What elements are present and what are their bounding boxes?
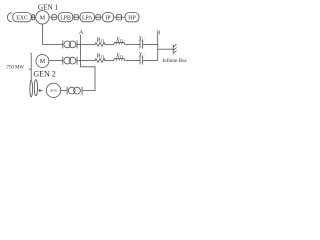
wire GEN1 step-up drop xyxy=(42,24,62,44)
wind turbine blade 2 xyxy=(34,80,37,96)
turbine mass HP xyxy=(125,13,139,22)
turbine mass EXC xyxy=(13,13,31,22)
svg-text:DFIG: DFIG xyxy=(50,89,58,93)
wire M to T2 xyxy=(49,60,63,62)
capacitor XC line1 xyxy=(140,40,143,48)
svg-text:Infinite Bus: Infinite Bus xyxy=(162,57,186,64)
svg-text:EXC: EXC xyxy=(16,16,28,22)
wire T3 riser to node A xyxy=(81,61,96,91)
wire line2 R to L xyxy=(106,60,115,62)
svg-text:IP: IP xyxy=(105,16,110,22)
svg-text:A: A xyxy=(79,30,84,36)
transformer T1 xyxy=(63,40,77,48)
turbine mass IP xyxy=(103,13,114,22)
svg-text:LPA: LPA xyxy=(82,16,93,22)
resistor RTL line2 xyxy=(95,59,106,63)
shaft coupling K3 xyxy=(73,16,80,18)
turbine mass LPB xyxy=(58,13,72,22)
svg-text:B: B xyxy=(156,30,160,36)
turbine mass LPA xyxy=(80,13,95,22)
wire line2 segment A to R xyxy=(81,60,96,62)
svg-text:XC: XC xyxy=(137,51,145,58)
svg-text:RTL: RTL xyxy=(96,36,106,43)
wind generator DFIG xyxy=(46,83,60,97)
inductor XTL line2 xyxy=(114,58,124,60)
svg-text:XC: XC xyxy=(137,35,145,42)
node B bus xyxy=(157,35,159,61)
wire line1 R to L xyxy=(106,43,115,45)
infinite bus symbol xyxy=(173,44,176,53)
svg-text:HP: HP xyxy=(128,16,135,22)
wire T2 to node A xyxy=(77,60,81,62)
wire B to infinite bus xyxy=(158,48,174,50)
svg-text:LPB: LPB xyxy=(60,16,71,22)
shaft coupling K2 xyxy=(49,16,58,18)
wind turbine shaft arrow xyxy=(39,89,43,92)
arrow 750 MW xyxy=(29,53,31,80)
svg-text:M: M xyxy=(40,58,46,65)
svg-text:GEN 2: GEN 2 xyxy=(33,70,55,79)
svg-text:XTL: XTL xyxy=(115,53,125,60)
wire line2 L to C xyxy=(125,60,141,62)
shaft coupling K5 xyxy=(114,16,126,18)
wind turbine blade 1 xyxy=(30,81,33,97)
transformer T2 xyxy=(63,57,77,65)
svg-text:RTL: RTL xyxy=(96,53,106,60)
svg-text:XTL: XTL xyxy=(115,36,125,43)
svg-text:750 MW: 750 MW xyxy=(7,66,25,71)
generator mass M (GEN 1) xyxy=(36,11,49,24)
resistor RTL line1 xyxy=(95,43,106,47)
inductor XTL line1 xyxy=(114,42,124,44)
exciter end cap arc xyxy=(7,13,12,22)
wire line2 C to B xyxy=(143,60,158,62)
shaft coupling K4 xyxy=(95,16,103,18)
wire line1 C to B xyxy=(143,43,158,45)
svg-text:GEN 1: GEN 1 xyxy=(38,3,59,11)
svg-text:M: M xyxy=(40,15,46,22)
node A bus xyxy=(80,35,82,61)
wire DFIG to T3 xyxy=(61,90,67,92)
wire line1 L to C xyxy=(125,43,141,45)
wire line1 segment A to R xyxy=(81,43,96,45)
shaft coupling K1 xyxy=(31,16,35,18)
capacitor XC line2 xyxy=(140,57,143,65)
generator M (GEN 2) xyxy=(36,55,49,68)
transformer T3 xyxy=(67,87,82,95)
